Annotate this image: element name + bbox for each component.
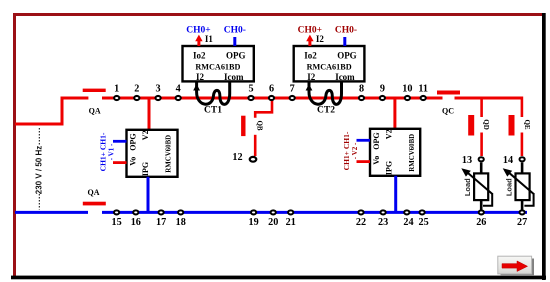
load 1 body (474, 173, 488, 200)
breaker QE contact bar (509, 115, 515, 136)
node 6 (269, 96, 274, 100)
svg-text:CT2: CT2 (317, 106, 335, 116)
svg-text:16: 16 (131, 217, 141, 228)
load 2 body (516, 173, 530, 200)
wire: U3 CH1+ stub (red) (113, 161, 127, 164)
svg-text:6: 6 (269, 84, 274, 95)
svg-text:Icom: Icom (224, 72, 244, 82)
svg-text:Vo: Vo (372, 156, 381, 165)
svg-text:Io2: Io2 (304, 50, 317, 60)
svg-text:21: 21 (286, 217, 296, 228)
svg-text:24: 24 (403, 217, 413, 228)
svg-text:QE: QE (523, 119, 531, 129)
svg-text:12: 12 (232, 152, 242, 163)
node 19 (251, 210, 256, 214)
svg-text:14: 14 (503, 155, 513, 166)
node 13 (479, 157, 484, 161)
wire: QE branch from rail (521, 97, 524, 118)
svg-text:CH1+ CH1-: CH1+ CH1- (342, 131, 351, 170)
wire: neutral rail main segment (102, 211, 527, 214)
svg-text:Icom: Icom (335, 72, 355, 82)
node 23 (381, 210, 386, 214)
svg-text:230 V / 50 Hz: 230 V / 50 Hz (35, 146, 44, 194)
node 16 (133, 210, 138, 214)
svg-text:RMCA61BD: RMCA61BD (195, 62, 240, 71)
svg-text:18: 18 (176, 217, 186, 228)
wire: U4 IPG to neutral rail (394, 176, 397, 213)
wire: top phase rail segment B (after QC) (455, 97, 522, 100)
svg-text:10: 10 (402, 84, 412, 95)
energy meter module U2 RMCA61BD (294, 46, 365, 81)
wire: QB to terminal 12 (254, 135, 257, 156)
wire: U4 CH1+ stub (red) (357, 160, 371, 163)
svg-text:27: 27 (517, 217, 527, 228)
svg-text:RMCV60BD: RMCV60BD (165, 135, 172, 173)
load 1 variable arrow (467, 172, 493, 194)
node 20 (271, 210, 276, 214)
node 1 (114, 96, 119, 100)
load 2 wire from node 14 (521, 163, 524, 174)
wire: top phase rail segment A (102, 97, 443, 100)
svg-text:I1: I1 (205, 34, 214, 44)
svg-text:CH1+ CH1-: CH1+ CH1- (99, 132, 108, 171)
load 2 variable arrow (508, 172, 534, 194)
load 2 wire to node 27 (521, 200, 524, 211)
svg-text:Load: Load (505, 178, 514, 196)
svg-text:26: 26 (476, 217, 486, 228)
svg-text:Vo: Vo (128, 157, 137, 166)
node 10 (405, 96, 410, 100)
wire: drop to U4 V2 pin (393, 98, 396, 129)
svg-text:I2: I2 (307, 72, 316, 82)
node 5 (248, 96, 253, 100)
current transformer CT2 winding (309, 82, 342, 105)
breaker QA bottom pole contact bar (83, 202, 106, 206)
wire: U1 CH0+ arrow (197, 41, 200, 47)
svg-text:15: 15 (112, 217, 122, 228)
node 26 (479, 210, 484, 214)
wire: drop to U3 V2 pin (148, 98, 151, 130)
svg-text:17: 17 (156, 217, 166, 228)
svg-text:IPG: IPG (141, 162, 150, 176)
svg-text:1: 1 (114, 84, 119, 95)
source 230V/50Hz dotted reference line (38, 128, 40, 146)
node 27 (520, 210, 525, 214)
node 11 (421, 96, 426, 100)
svg-text:I2: I2 (316, 34, 325, 44)
load 1 wire from node 13 (480, 163, 483, 174)
node 9 (380, 96, 385, 100)
wire: U3 CH1- stub (blue) (113, 140, 127, 143)
load 1 wire to node 26 (480, 200, 483, 211)
svg-text:8: 8 (359, 84, 364, 95)
wire: U4 CH1- stub (blue) (357, 139, 371, 142)
wire: QE to node 14 (521, 133, 524, 157)
svg-text:- V1 -: - V1 - (108, 143, 116, 160)
svg-text:CT1: CT1 (204, 106, 222, 116)
svg-text:9: 9 (380, 84, 385, 95)
svg-text:CH0-: CH0- (224, 26, 246, 36)
svg-text:20: 20 (268, 217, 278, 228)
node 4 (176, 96, 181, 100)
svg-text:V2: V2 (141, 130, 150, 140)
svg-text:QA: QA (88, 188, 100, 197)
svg-text:22: 22 (356, 217, 366, 228)
wire: U1 CH0- stub (233, 37, 236, 46)
wire: QD branch from rail (480, 98, 483, 117)
voltage meter module U4 RMCV60BD (370, 129, 420, 176)
energy meter module U1 RMCA61BD (183, 46, 254, 81)
svg-text:23: 23 (378, 217, 388, 228)
breaker QB contact bar (241, 116, 245, 136)
wire: QD to node 13 (480, 133, 483, 157)
svg-text:RMCA61BD: RMCA61BD (307, 62, 352, 71)
node 22 (358, 210, 363, 214)
node 14 (520, 157, 525, 161)
current transformer CT1 winding (197, 82, 230, 105)
svg-text:2: 2 (134, 84, 139, 95)
svg-text:I2: I2 (196, 72, 205, 82)
svg-text:OPG: OPG (372, 132, 381, 149)
svg-text:- V2 -: - V2 - (351, 142, 359, 159)
svg-text:7: 7 (290, 84, 295, 95)
node 18 (178, 210, 183, 214)
wire: QB branch from node 6 (255, 98, 272, 118)
node 7 (290, 96, 295, 100)
svg-text:IPG: IPG (384, 161, 393, 175)
svg-text:25: 25 (419, 217, 429, 228)
svg-text:OPG: OPG (128, 133, 137, 150)
wire: phase feeder from source (15, 98, 88, 124)
svg-text:QB: QB (256, 120, 264, 130)
svg-text:OPG: OPG (226, 50, 246, 60)
node 24 (404, 210, 409, 214)
voltage meter module U3 RMCV60BD (127, 130, 178, 177)
svg-text:OPG: OPG (337, 50, 357, 60)
svg-text:RMCV60BD: RMCV60BD (409, 134, 416, 172)
svg-text:QC: QC (442, 107, 454, 116)
svg-text:Load: Load (463, 178, 472, 196)
node 2 (134, 96, 139, 100)
next button (498, 256, 534, 276)
node 12 (250, 157, 257, 162)
node 8 (359, 96, 364, 100)
svg-text:QD: QD (482, 119, 490, 130)
node 17 (159, 210, 164, 214)
svg-text:19: 19 (249, 217, 259, 228)
svg-text:V2: V2 (384, 129, 393, 139)
breaker QD contact bar (468, 115, 474, 136)
breaker QA top pole contact bar (83, 89, 106, 92)
svg-text:11: 11 (418, 84, 428, 95)
node 3 (156, 96, 161, 100)
wire: U2 CH0- stub (343, 37, 346, 46)
node 15 (114, 210, 119, 214)
svg-text:5: 5 (248, 84, 253, 95)
breaker QC contact bar (437, 91, 460, 95)
svg-text:4: 4 (176, 84, 181, 95)
svg-text:Io2: Io2 (193, 50, 206, 60)
wire: U2 CH0+ arrow (308, 41, 311, 47)
node 21 (288, 210, 293, 214)
svg-text:QA: QA (89, 106, 101, 115)
wire: U3 IPG to neutral rail (147, 177, 150, 213)
svg-text:13: 13 (462, 155, 472, 166)
node 25 (420, 210, 425, 214)
wire: neutral rail left segment (15, 211, 88, 214)
svg-text:CH0-: CH0- (335, 26, 357, 36)
svg-text:3: 3 (156, 84, 161, 95)
